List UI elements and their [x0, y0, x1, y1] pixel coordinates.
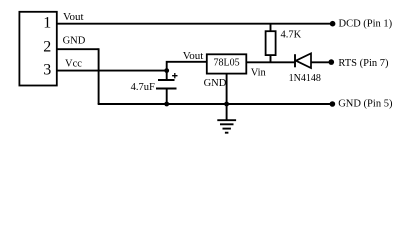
svg-text:GND: GND [204, 78, 227, 89]
connector J1 (DB9 box) [19, 12, 56, 86]
resistor R1 4.7K [270, 24, 272, 32]
junction dot rail/regulator gnd [224, 102, 229, 107]
svg-text:4.7K: 4.7K [281, 29, 302, 40]
ground symbol [226, 104, 228, 120]
wire regulator Vin to diode [246, 61, 295, 63]
svg-text:3: 3 [43, 61, 51, 78]
svg-text:1: 1 [43, 14, 51, 31]
svg-text:4.7uF: 4.7uF [131, 82, 155, 93]
svg-text:Vin: Vin [251, 68, 267, 79]
terminal dot RTS [329, 59, 335, 65]
wire regulator GND drop [226, 74, 228, 104]
svg-text:DCD (Pin 1): DCD (Pin 1) [339, 19, 393, 30]
diode D1 1N4148 [294, 54, 296, 67]
terminal dot GND rail [330, 101, 336, 107]
svg-text:1N4148: 1N4148 [289, 73, 321, 84]
wire pin2 horizontal [56, 48, 98, 50]
wire step up from node to regulator output [167, 62, 207, 71]
capacitor plus sign [172, 73, 177, 78]
node A junction dot (cap top) [164, 68, 169, 73]
svg-text:GND: GND [63, 36, 86, 47]
junction dot cap bottom [164, 102, 169, 107]
svg-text:2: 2 [43, 39, 51, 56]
svg-text:RTS (Pin 7): RTS (Pin 7) [338, 58, 389, 69]
wire diode to RTS terminal [311, 61, 330, 63]
svg-text:78L05: 78L05 [214, 58, 240, 69]
terminal dot DCD [330, 21, 336, 27]
svg-text:GND (Pin 5): GND (Pin 5) [338, 99, 393, 110]
wire pin3 (Vcc) to capacitor node [56, 70, 166, 72]
wire pin2 vertical drop [98, 48, 100, 104]
wire bottom ground rail [98, 103, 331, 105]
svg-text:Vout: Vout [63, 11, 84, 23]
svg-text:Vout: Vout [183, 50, 204, 62]
capacitor C1 4.7uF [166, 71, 168, 80]
svg-text:Vcc: Vcc [65, 58, 82, 69]
regulator U1 78L05 box [207, 54, 247, 73]
wire pin1 to DCD terminal [56, 23, 331, 25]
